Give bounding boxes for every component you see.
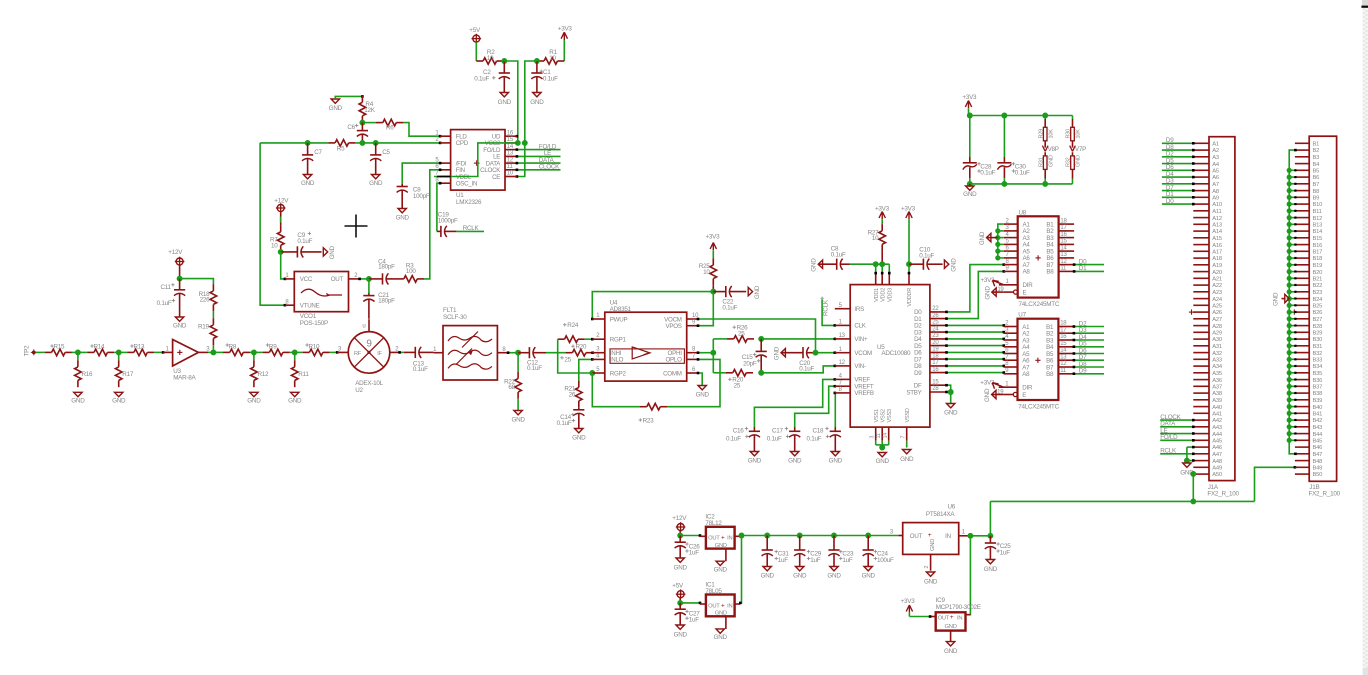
svg-text:GND: GND bbox=[944, 648, 958, 655]
power +3V3 at IC9 bbox=[901, 598, 932, 618]
svg-text:VDD3: VDD3 bbox=[888, 288, 894, 302]
svg-text:R8: R8 bbox=[229, 343, 237, 350]
capacitor C18 bbox=[807, 427, 841, 452]
svg-text:GND: GND bbox=[979, 231, 986, 245]
power +3V3 at VDDDR bbox=[901, 206, 916, 220]
junction +3V3/C1 bbox=[534, 58, 540, 64]
resistor R12 bbox=[251, 352, 269, 387]
svg-text:IN: IN bbox=[727, 536, 732, 542]
buffer U8 74LCX245MTC bbox=[997, 209, 1074, 308]
svg-text:A20: A20 bbox=[1212, 270, 1222, 276]
svg-text:OSC_IN: OSC_IN bbox=[456, 181, 478, 188]
ADC U5 ADC10080 bbox=[835, 285, 947, 441]
svg-text:0.1uF: 0.1uF bbox=[799, 366, 814, 373]
wire +5V to R2 bbox=[475, 42, 477, 61]
svg-text:GND: GND bbox=[829, 458, 843, 465]
svg-text:A1: A1 bbox=[1212, 142, 1219, 148]
svg-text:B25: B25 bbox=[1313, 304, 1323, 310]
svg-text:VCOM: VCOM bbox=[854, 350, 872, 357]
junction U1 pin15 a bbox=[515, 140, 521, 146]
wire R14-R13 bbox=[114, 351, 127, 353]
svg-text:13: 13 bbox=[1060, 252, 1067, 258]
svg-text:CLOCK: CLOCK bbox=[539, 164, 560, 171]
resistor R16 bbox=[75, 352, 93, 387]
svg-text:+3V3: +3V3 bbox=[901, 598, 916, 605]
svg-text:26: 26 bbox=[569, 392, 576, 399]
ground GND below IC2 bbox=[714, 561, 728, 573]
svg-text:B49: B49 bbox=[1313, 466, 1323, 472]
svg-text:B12: B12 bbox=[1313, 216, 1323, 222]
svg-text:GND: GND bbox=[674, 631, 688, 638]
svg-text:B42: B42 bbox=[1313, 418, 1323, 424]
wire VREFB to C18 bbox=[834, 392, 837, 427]
junction rail t1 bbox=[967, 113, 973, 119]
wire VREF to C16 bbox=[754, 378, 836, 427]
svg-text:12: 12 bbox=[839, 360, 846, 366]
net label D6 bbox=[1073, 347, 1104, 355]
junction R15/R16 bbox=[75, 349, 81, 355]
regulator IC9 MCP1790 bbox=[930, 597, 981, 642]
capacitor C23 bbox=[828, 536, 854, 567]
svg-text:A49: A49 bbox=[1212, 466, 1222, 472]
ground GND below C17 bbox=[788, 452, 802, 465]
svg-text:0.1uF: 0.1uF bbox=[527, 365, 542, 372]
svg-text:U8: U8 bbox=[1019, 209, 1027, 216]
net D1 at J1A bbox=[1162, 191, 1195, 199]
svg-text:STBY: STBY bbox=[906, 389, 921, 396]
svg-text:ADC10080: ADC10080 bbox=[881, 350, 911, 357]
svg-text:R23: R23 bbox=[643, 417, 655, 424]
svg-text:11: 11 bbox=[507, 164, 514, 170]
junction rail b2 bbox=[1001, 181, 1007, 187]
svg-text:B9: B9 bbox=[1313, 196, 1320, 202]
wire FLT1 out bbox=[507, 351, 518, 354]
svg-text:GND: GND bbox=[788, 458, 802, 465]
svg-text:1uF: 1uF bbox=[842, 557, 853, 564]
svg-text:VDD2: VDD2 bbox=[880, 288, 886, 302]
svg-text:U1: U1 bbox=[456, 192, 464, 199]
svg-text:18: 18 bbox=[1060, 321, 1067, 327]
svg-text:A8: A8 bbox=[1023, 269, 1031, 276]
ground GND below R12 bbox=[247, 392, 261, 404]
capacitor C14 bbox=[557, 408, 585, 429]
connector J1B FX2_R_100 bbox=[1292, 136, 1341, 497]
svg-text:1uF: 1uF bbox=[778, 557, 789, 564]
svg-text:A39: A39 bbox=[1212, 398, 1222, 404]
svg-text:10K: 10K bbox=[1076, 129, 1082, 139]
svg-text:GND: GND bbox=[754, 285, 761, 299]
ground GND below C5 bbox=[369, 175, 383, 188]
svg-text:+12V: +12V bbox=[672, 515, 687, 522]
svg-text:B28: B28 bbox=[1313, 324, 1323, 330]
svg-text:R31: R31 bbox=[1038, 157, 1044, 167]
svg-text:17: 17 bbox=[1060, 225, 1067, 231]
resistor R4 bbox=[359, 96, 376, 123]
svg-text:1uF: 1uF bbox=[1000, 549, 1011, 556]
wire VDDL loop to VCC2 bbox=[434, 143, 517, 177]
svg-text:18: 18 bbox=[1060, 218, 1067, 224]
svg-text:R12: R12 bbox=[258, 371, 270, 378]
svg-text:IN: IN bbox=[727, 603, 732, 609]
wire R19 to junction bbox=[212, 345, 214, 352]
testpoint TP2 bbox=[24, 345, 37, 357]
junction IC2 out bbox=[739, 533, 745, 539]
net RCLK at J1A bbox=[1160, 446, 1194, 462]
junction R9/R11 bbox=[292, 349, 298, 355]
svg-text:A38: A38 bbox=[1212, 391, 1222, 397]
svg-text:+5V: +5V bbox=[469, 27, 481, 34]
capacitor C24 bbox=[863, 536, 894, 567]
wire R20 to INHI bbox=[591, 351, 594, 354]
svg-text:A41: A41 bbox=[1212, 412, 1222, 418]
svg-text:C7: C7 bbox=[314, 149, 322, 156]
wire C25 to rail bbox=[989, 501, 991, 535]
capacitor C6 bbox=[347, 123, 368, 143]
svg-text:R17: R17 bbox=[122, 371, 134, 378]
junction VCO OUT bbox=[366, 276, 372, 282]
svg-text:GND: GND bbox=[963, 191, 977, 198]
resistor R21 bbox=[564, 381, 582, 408]
svg-text:A14: A14 bbox=[1212, 229, 1223, 235]
net label D7 bbox=[1073, 354, 1104, 361]
svg-text:GND: GND bbox=[811, 258, 818, 272]
junction VCOM bbox=[813, 350, 819, 356]
svg-text:B26: B26 bbox=[1313, 310, 1323, 316]
svg-text:VIN+: VIN+ bbox=[854, 336, 868, 343]
pin label u mixer top bbox=[362, 324, 365, 330]
svg-text:16: 16 bbox=[507, 130, 514, 136]
ground GND below C27 bbox=[674, 625, 688, 638]
capacitor C12 bbox=[518, 347, 546, 372]
wire VDDDR bbox=[908, 219, 911, 284]
svg-text:TP2: TP2 bbox=[24, 345, 31, 357]
svg-text:GND: GND bbox=[1076, 155, 1082, 167]
svg-text:VPOS: VPOS bbox=[665, 323, 681, 330]
wire IC1 to IC2 rail bbox=[739, 536, 742, 605]
wire OPLO feedback bbox=[667, 358, 720, 407]
svg-text:12K: 12K bbox=[364, 107, 376, 114]
svg-text:R20: R20 bbox=[576, 343, 588, 350]
svg-text:A9: A9 bbox=[1212, 196, 1219, 202]
svg-text:E: E bbox=[1023, 289, 1027, 296]
svg-text:20pF: 20pF bbox=[743, 360, 757, 367]
svg-text:POS-150P: POS-150P bbox=[300, 320, 328, 327]
svg-text:A36: A36 bbox=[1212, 378, 1222, 384]
svg-text:0.1uF: 0.1uF bbox=[297, 238, 312, 245]
svg-text:VREFB: VREFB bbox=[854, 390, 874, 397]
wire R7 to VCO VCC bbox=[281, 252, 287, 280]
junction RGP2 bbox=[589, 370, 595, 376]
svg-text:0.1uF: 0.1uF bbox=[543, 75, 558, 82]
resistor R25 bbox=[699, 250, 717, 285]
svg-text:GND: GND bbox=[715, 543, 727, 549]
capacitor C9 bbox=[281, 232, 322, 258]
resistor R10 bbox=[303, 343, 330, 355]
junction VDD1 bbox=[873, 261, 879, 267]
power +3V3 at U8 DIR bbox=[981, 277, 1004, 286]
capacitor C16 bbox=[726, 427, 760, 452]
ground GND at U7 E bbox=[984, 388, 1004, 402]
svg-text:R14: R14 bbox=[94, 343, 106, 350]
net D9 ADC to U7 bbox=[945, 371, 1005, 374]
junction VSS bbox=[879, 445, 885, 451]
svg-text:180pF: 180pF bbox=[378, 298, 395, 305]
svg-text:0.1uF: 0.1uF bbox=[831, 251, 846, 258]
svg-text:GND: GND bbox=[247, 398, 261, 405]
wire to VIN+ bbox=[761, 338, 836, 341]
svg-text:B40: B40 bbox=[1313, 405, 1323, 411]
wire U6 to C25 bbox=[968, 535, 991, 537]
wire main CPD row bbox=[260, 142, 328, 144]
svg-text:B48: B48 bbox=[1313, 459, 1323, 465]
svg-text:B44: B44 bbox=[1313, 432, 1324, 438]
capacitor C20 bbox=[781, 347, 816, 373]
svg-text:7: 7 bbox=[901, 436, 907, 439]
capacitor C27 bbox=[675, 603, 701, 625]
net DATA bbox=[516, 157, 561, 165]
wire VOCM to VCOM bbox=[697, 318, 816, 353]
wire power rail bbox=[742, 535, 899, 537]
net label D2 bbox=[1073, 320, 1104, 328]
svg-text:u: u bbox=[362, 324, 365, 330]
svg-text:A42: A42 bbox=[1212, 418, 1222, 424]
net label D0 bbox=[1073, 258, 1104, 266]
ground GND below VSSD bbox=[900, 441, 914, 463]
resistor R8 bbox=[213, 343, 250, 355]
ground GND below IC1 bbox=[714, 629, 728, 641]
capacitor C13 bbox=[398, 347, 433, 373]
wire ADC VSS to GND bbox=[876, 441, 889, 449]
svg-text:B41: B41 bbox=[1313, 412, 1323, 418]
svg-text:OUT: OUT bbox=[331, 276, 344, 283]
svg-text:LMX2326: LMX2326 bbox=[456, 199, 482, 206]
svg-text:B1: B1 bbox=[1313, 142, 1320, 148]
svg-text:B20: B20 bbox=[1313, 270, 1323, 276]
svg-text:R6: R6 bbox=[386, 125, 394, 132]
svg-text:C16: C16 bbox=[733, 427, 745, 434]
power +12V bottom bbox=[672, 515, 687, 532]
wire TP2 to R15 bbox=[36, 351, 45, 353]
resistor R19 bbox=[198, 318, 217, 345]
svg-text:B45: B45 bbox=[1313, 439, 1323, 445]
svg-text:R24: R24 bbox=[567, 322, 579, 329]
svg-text:14: 14 bbox=[883, 433, 889, 439]
resistor R27 bbox=[868, 219, 886, 251]
svg-text:0.1uF: 0.1uF bbox=[726, 436, 741, 443]
resistor R18 bbox=[199, 284, 217, 311]
wire +3V3 rail to U1 pin15/pin10 bbox=[516, 61, 537, 178]
svg-text:B47: B47 bbox=[1313, 452, 1323, 458]
svg-text:OPLO: OPLO bbox=[665, 357, 682, 364]
svg-text:GND: GND bbox=[984, 566, 998, 573]
svg-text:16: 16 bbox=[932, 367, 939, 373]
svg-text:IN: IN bbox=[957, 616, 962, 622]
junction VIN- C15 bbox=[758, 370, 764, 376]
svg-text:GND: GND bbox=[498, 99, 512, 106]
ground GND below C25 bbox=[984, 560, 998, 573]
svg-text:U6: U6 bbox=[948, 503, 956, 510]
wire OPHI vertical bbox=[712, 339, 714, 373]
svg-text:A33: A33 bbox=[1212, 358, 1222, 364]
svg-text:+: + bbox=[950, 614, 954, 621]
svg-text:GND: GND bbox=[876, 458, 890, 465]
net D0 at J1A bbox=[1162, 198, 1195, 206]
junction VDD2 bbox=[879, 261, 885, 267]
svg-text:RCLK: RCLK bbox=[822, 299, 829, 316]
svg-text:GND: GND bbox=[714, 567, 728, 574]
svg-text:GND: GND bbox=[900, 456, 914, 463]
svg-text:68: 68 bbox=[508, 384, 515, 391]
net D6 ADC to U7 bbox=[945, 351, 1005, 354]
svg-text:10: 10 bbox=[703, 269, 710, 276]
capacitor C1 bbox=[531, 61, 558, 93]
svg-text:B29: B29 bbox=[1313, 331, 1323, 337]
svg-text:IRS: IRS bbox=[854, 306, 864, 313]
svg-text:A2: A2 bbox=[1212, 148, 1219, 154]
svg-text:B39: B39 bbox=[1313, 398, 1323, 404]
resistor R20 lower bbox=[713, 370, 753, 390]
svg-text:19: 19 bbox=[932, 347, 939, 353]
svg-text:OUT: OUT bbox=[938, 616, 950, 622]
svg-text:0.1uF: 0.1uF bbox=[1015, 170, 1030, 177]
resistor R3 bbox=[397, 263, 424, 283]
wire +12V to IC2 bbox=[680, 534, 701, 537]
svg-text:VSS1: VSS1 bbox=[874, 409, 880, 422]
junction C6 bottom bbox=[359, 140, 365, 146]
ground GND right of C9 bbox=[323, 245, 336, 259]
junction C29 bbox=[797, 533, 803, 539]
net RCLK stub bbox=[456, 225, 484, 232]
svg-text:15: 15 bbox=[1060, 239, 1067, 245]
svg-text:+: + bbox=[928, 532, 932, 539]
wire R3 to U1 FIN bbox=[424, 169, 441, 279]
junction A48 bbox=[1184, 458, 1190, 464]
wire VPOS bbox=[697, 292, 714, 327]
svg-text:R29: R29 bbox=[1038, 129, 1044, 139]
ground GND below C7 bbox=[301, 175, 315, 188]
svg-text:R9: R9 bbox=[269, 343, 277, 350]
svg-text:17: 17 bbox=[1060, 327, 1067, 333]
svg-text:A18: A18 bbox=[1212, 256, 1222, 262]
wire +12V to R18 bbox=[180, 279, 214, 285]
resistor R9 bbox=[263, 343, 290, 355]
svg-text:+: + bbox=[721, 535, 725, 542]
svg-text:+12V: +12V bbox=[274, 198, 289, 205]
wire VCO OUT bbox=[358, 278, 369, 281]
power +5V bottom bbox=[672, 582, 685, 599]
scrollbar strip at right edge bbox=[1361, 0, 1368, 675]
svg-text:2: 2 bbox=[924, 566, 930, 569]
svg-text:B36: B36 bbox=[1313, 378, 1323, 384]
ground GND at J1B bbox=[1273, 292, 1290, 306]
svg-text:R32: R32 bbox=[1066, 157, 1072, 167]
svg-text:R19: R19 bbox=[198, 324, 210, 331]
svg-text:A47: A47 bbox=[1212, 452, 1222, 458]
svg-text:GND: GND bbox=[774, 346, 781, 360]
svg-text:A28: A28 bbox=[1212, 324, 1222, 330]
ground GND below VSS bbox=[876, 453, 890, 466]
wire C12 to R20 bbox=[546, 352, 566, 354]
svg-text:GND: GND bbox=[674, 565, 688, 572]
svg-text:13: 13 bbox=[1060, 354, 1067, 360]
junction C5 bbox=[373, 140, 379, 146]
svg-text:GND: GND bbox=[173, 323, 187, 330]
svg-text:25: 25 bbox=[564, 356, 571, 363]
svg-text:0.1uF: 0.1uF bbox=[157, 300, 172, 307]
wire U1 pin5 to C8 bbox=[402, 162, 441, 184]
capacitor C29 bbox=[794, 536, 822, 567]
junction A50 bbox=[1190, 471, 1196, 477]
wire R25 to rail bbox=[712, 285, 714, 291]
ground GND right of C22 bbox=[748, 285, 761, 299]
svg-text:VTUNE: VTUNE bbox=[300, 303, 320, 310]
svg-text:CLK: CLK bbox=[854, 323, 866, 330]
power +5V bbox=[469, 27, 481, 43]
junction rail b3 bbox=[1042, 181, 1048, 187]
resistor R23 bbox=[639, 403, 667, 424]
svg-text:B13: B13 bbox=[1313, 223, 1323, 229]
wire R24 to RGP1 bbox=[585, 338, 594, 341]
wire +3V3 bottom rail bbox=[969, 183, 1073, 185]
svg-text:GND: GND bbox=[944, 409, 958, 416]
svg-text:A29: A29 bbox=[1212, 331, 1222, 337]
connector J1A FX2_R_100 bbox=[1189, 137, 1240, 498]
svg-text:A46: A46 bbox=[1212, 445, 1222, 451]
svg-text:MCP1790-3002E: MCP1790-3002E bbox=[936, 604, 981, 611]
ground GND at A48 bbox=[1180, 461, 1194, 477]
svg-text:13: 13 bbox=[839, 333, 846, 339]
ground GND below IC9 bbox=[944, 642, 958, 655]
svg-text:A7: A7 bbox=[1212, 182, 1219, 188]
wire U1 pin8 to C19 bbox=[437, 182, 442, 232]
svg-text:A25: A25 bbox=[1212, 304, 1222, 310]
svg-text:A21: A21 bbox=[1212, 277, 1222, 283]
svg-text:VCC: VCC bbox=[300, 276, 313, 283]
svg-text:18: 18 bbox=[932, 353, 939, 359]
svg-text:25: 25 bbox=[738, 331, 745, 338]
svg-text:GND: GND bbox=[1048, 155, 1054, 167]
net RCLK at ADC bbox=[820, 297, 836, 327]
ground GND below C1 bbox=[530, 93, 544, 106]
svg-text:C11: C11 bbox=[160, 284, 171, 291]
svg-text:0.1uF: 0.1uF bbox=[474, 75, 489, 82]
svg-text:A35: A35 bbox=[1212, 371, 1222, 377]
svg-text:10: 10 bbox=[507, 171, 514, 177]
svg-text:10: 10 bbox=[549, 55, 556, 62]
net DATA at J1A bbox=[1160, 421, 1194, 429]
svg-text:A12: A12 bbox=[1212, 216, 1222, 222]
power +3V3 at U7 DIR bbox=[980, 379, 1003, 388]
svg-text:1uF: 1uF bbox=[689, 550, 700, 557]
ground GND below R22 bbox=[511, 399, 525, 424]
junction U3 output bbox=[210, 349, 216, 355]
net LE bbox=[516, 150, 561, 158]
svg-text:14: 14 bbox=[1060, 348, 1067, 354]
resistor R7 bbox=[270, 225, 284, 252]
junction +12V C26 bbox=[677, 531, 683, 539]
svg-text:+5V: +5V bbox=[672, 582, 684, 589]
svg-text:R5: R5 bbox=[337, 146, 345, 153]
svg-text:INLO: INLO bbox=[610, 357, 624, 364]
ground GND below C23 bbox=[827, 567, 841, 580]
svg-text:25: 25 bbox=[932, 320, 939, 326]
capacitor C31 bbox=[762, 536, 790, 567]
svg-text:A44: A44 bbox=[1212, 432, 1223, 438]
svg-text:D9: D9 bbox=[914, 370, 922, 377]
svg-text:E: E bbox=[1022, 392, 1026, 399]
svg-text:GND: GND bbox=[984, 286, 991, 300]
net D4 at J1A bbox=[1162, 171, 1195, 179]
